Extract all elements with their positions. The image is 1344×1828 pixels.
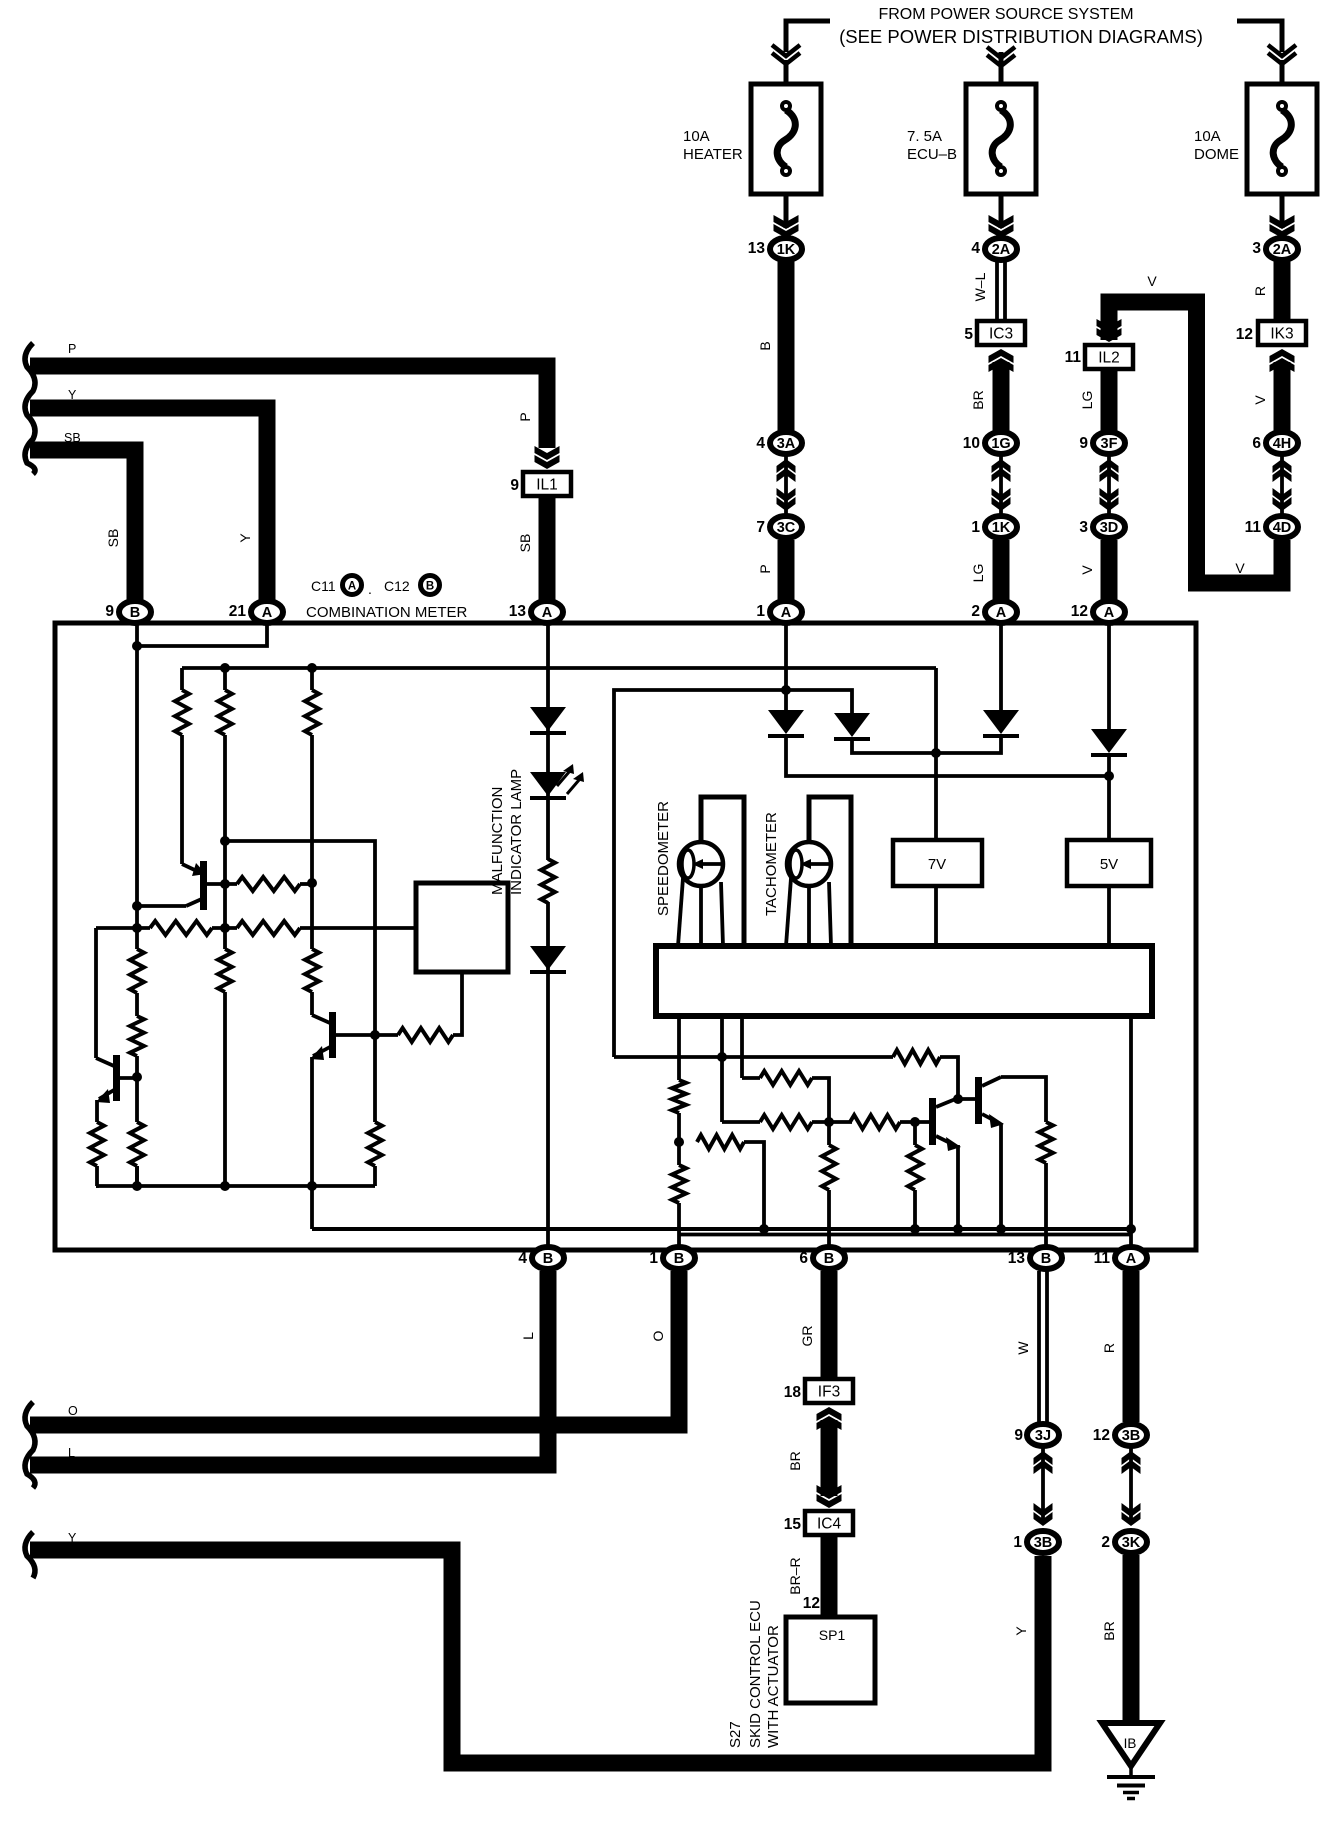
svg-text:P: P xyxy=(68,342,76,356)
svg-text:B: B xyxy=(757,341,773,350)
junction rail T4 emitter xyxy=(953,1224,963,1234)
resistor R2 xyxy=(218,690,232,735)
wire Y from harness to 21A xyxy=(30,408,267,600)
svg-text:15: 15 xyxy=(784,1516,802,1533)
wire D6 to 5V xyxy=(1107,754,1111,840)
resistor R3 xyxy=(305,690,319,735)
connector 13 1K xyxy=(770,238,802,260)
wire 13A down MIL chain xyxy=(546,624,550,860)
wire O from 1B to harness xyxy=(30,1271,679,1425)
junction ground row 9B column xyxy=(132,1181,142,1191)
svg-text:IK3: IK3 xyxy=(1270,326,1293,343)
wire bus to 1B resistor chain xyxy=(677,1016,681,1080)
svg-text:10A: 10A xyxy=(1194,128,1221,145)
svg-text:BR–R: BR–R xyxy=(787,1557,803,1594)
resistor R18 xyxy=(760,1115,812,1129)
wire P from harness to IL1 xyxy=(30,366,547,448)
row with R6 R7 to M1 box xyxy=(96,926,150,930)
svg-text:IL2: IL2 xyxy=(1098,350,1120,367)
junction R13 R14 xyxy=(674,1137,684,1147)
junction base divider xyxy=(910,1117,920,1127)
svg-text:4: 4 xyxy=(518,1250,527,1267)
resistor R4 mid column xyxy=(305,949,319,992)
link 3A to 3C xyxy=(784,456,788,514)
junction T1 collector to 9B column xyxy=(132,901,142,911)
junction R5 to R3 column xyxy=(307,878,317,888)
svg-text:SB: SB xyxy=(105,529,121,548)
svg-text:1K: 1K xyxy=(777,242,796,258)
resistor R7 xyxy=(237,921,300,935)
svg-text:11: 11 xyxy=(1065,349,1082,366)
junction rail R20 xyxy=(910,1224,920,1234)
connector 9 3J xyxy=(1027,1424,1059,1446)
wire R17 corner down xyxy=(742,1076,760,1080)
svg-text:12: 12 xyxy=(1071,603,1088,620)
speedometer wires to bus xyxy=(701,797,744,946)
svg-text:A: A xyxy=(781,605,792,621)
M1 box xyxy=(416,883,508,972)
svg-text:BR: BR xyxy=(970,390,986,409)
svg-text:3K: 3K xyxy=(1122,1535,1141,1551)
svg-text:9: 9 xyxy=(510,477,519,494)
svg-text:6: 6 xyxy=(799,1250,808,1267)
svg-text:SP1: SP1 xyxy=(819,1627,846,1643)
connector 7 3C xyxy=(770,516,802,538)
svg-text:9: 9 xyxy=(1014,1427,1023,1444)
wire bus to 11A xyxy=(1129,1016,1133,1252)
svg-text:B: B xyxy=(1041,1251,1051,1267)
wire W-L 2A to IC3 double line xyxy=(995,262,999,321)
transistor T3 NPN lower mid xyxy=(312,1015,330,1023)
ground row left circuit xyxy=(96,1184,375,1188)
svg-text:MALFUNCTION: MALFUNCTION xyxy=(489,787,506,895)
svg-text:13: 13 xyxy=(748,240,766,257)
wire 12A down to diode D6 xyxy=(1107,624,1111,729)
svg-text:B: B xyxy=(130,605,140,621)
svg-text:B: B xyxy=(674,1251,684,1267)
wire R4 to T3 collector xyxy=(310,992,314,1015)
diode D1 xyxy=(530,707,566,731)
wire R14 to 1B xyxy=(677,1203,681,1252)
arrow out of IK3 upward xyxy=(1270,349,1295,363)
svg-text:4: 4 xyxy=(756,435,765,452)
svg-text:A: A xyxy=(262,605,273,621)
svg-text:L: L xyxy=(520,1332,536,1340)
connector 9 3F xyxy=(1093,432,1125,454)
connector 10 1G xyxy=(985,432,1017,454)
svg-text:4D: 4D xyxy=(1273,520,1292,536)
link 3J to 3B arrows xyxy=(1041,1448,1045,1524)
fuse 10A DOME xyxy=(1247,84,1317,194)
svg-text:4H: 4H xyxy=(1273,436,1292,452)
wire fuse to connector 2A xyxy=(999,194,1004,228)
wire from power source to heater fuse xyxy=(786,21,830,52)
svg-text:3F: 3F xyxy=(1101,436,1118,452)
svg-text:B: B xyxy=(543,1251,553,1267)
svg-text:BR: BR xyxy=(1101,1621,1117,1640)
wire R from 11A to 3B xyxy=(1123,1271,1140,1422)
resistor R16 xyxy=(893,1050,940,1064)
T5 collector to 13B output xyxy=(1001,1077,1046,1122)
ground IB xyxy=(1102,1723,1160,1766)
svg-text:11: 11 xyxy=(1245,519,1262,536)
svg-text:A: A xyxy=(1104,605,1115,621)
svg-text:1: 1 xyxy=(649,1250,658,1267)
svg-text:A: A xyxy=(1126,1251,1137,1267)
resistor R6 xyxy=(150,921,212,935)
svg-text:W: W xyxy=(1015,1341,1031,1355)
wire fuse to connector 2A dome xyxy=(1280,194,1285,228)
wire 7V to bus xyxy=(934,886,938,946)
svg-text:IF3: IF3 xyxy=(818,1384,840,1401)
skid control ECU SP1 xyxy=(786,1617,875,1703)
svg-text:1: 1 xyxy=(756,603,765,620)
svg-text:P: P xyxy=(757,564,773,573)
svg-text:1G: 1G xyxy=(991,436,1010,452)
wire bus stub to gauge feed line xyxy=(720,1016,724,1057)
svg-text:12: 12 xyxy=(1236,326,1253,343)
connector 4 2A xyxy=(985,238,1017,260)
wire ground row to main rail xyxy=(310,1186,314,1229)
fuse 7.5A ECU-B xyxy=(966,84,1036,194)
junction T4 collector T5 base xyxy=(953,1094,963,1104)
resistor R9 xyxy=(90,1122,104,1166)
wire BR IF3 to IC4 xyxy=(821,1420,838,1496)
svg-text:V: V xyxy=(1235,560,1245,576)
combination meter box xyxy=(55,623,1196,1250)
junction rail R3 xyxy=(307,663,317,673)
svg-text:18: 18 xyxy=(784,1384,802,1401)
svg-text:IB: IB xyxy=(1124,1736,1137,1751)
svg-text:A: A xyxy=(996,605,1007,621)
wire D4 to 7V node xyxy=(852,735,1001,753)
arrow into IC4 xyxy=(817,1494,842,1508)
resistor R17 xyxy=(760,1071,812,1085)
svg-text:3D: 3D xyxy=(1100,520,1119,536)
diode D5 on 2A xyxy=(983,710,1019,734)
junction T3 base M1 column xyxy=(370,1030,380,1040)
tachometer gauge xyxy=(787,842,831,886)
junction row left column xyxy=(132,923,142,933)
svg-text:Y: Y xyxy=(68,1531,77,1545)
transistor T5 NPN output xyxy=(975,1077,982,1124)
svg-text:S27: S27 xyxy=(727,1721,744,1748)
T2 base wire xyxy=(120,1076,137,1080)
svg-text:INDICATOR LAMP: INDICATOR LAMP xyxy=(508,769,525,895)
svg-text:LG: LG xyxy=(970,564,986,583)
svg-text:4: 4 xyxy=(971,240,980,257)
svg-text:13: 13 xyxy=(1008,1250,1026,1267)
svg-text:3C: 3C xyxy=(777,520,796,536)
svg-text:(SEE POWER DISTRIBUTION DIAGRA: (SEE POWER DISTRIBUTION DIAGRAMS) xyxy=(839,26,1203,47)
break symbol for Y wire xyxy=(25,1532,35,1578)
wire 5V to bus xyxy=(1107,886,1111,946)
connector 6 4H xyxy=(1266,432,1298,454)
svg-text:SB: SB xyxy=(64,431,81,445)
wire D3 to 5V rail xyxy=(786,735,1109,776)
arrow into ECU-B fuse xyxy=(987,47,1015,66)
svg-text:1: 1 xyxy=(971,519,980,536)
svg-text:V: V xyxy=(1147,273,1157,289)
diode D2 xyxy=(530,946,566,970)
svg-text:DOME: DOME xyxy=(1194,146,1239,163)
link 3F to 3D xyxy=(1107,456,1111,514)
wire R 2A to IK3 xyxy=(1274,261,1291,321)
regulator 5V xyxy=(1067,840,1151,886)
svg-text:7. 5A: 7. 5A xyxy=(907,128,942,145)
wire W from 13B to 3J double line xyxy=(1037,1271,1041,1422)
wire from 21A to left column xyxy=(137,624,267,646)
wire Y from harness to 3B xyxy=(30,1550,1043,1763)
resistor R13 xyxy=(672,1080,686,1113)
svg-text:1K: 1K xyxy=(992,520,1011,536)
svg-text:3: 3 xyxy=(1079,519,1088,536)
svg-text:FROM POWER SOURCE SYSTEM: FROM POWER SOURCE SYSTEM xyxy=(878,6,1133,23)
svg-text:3: 3 xyxy=(1252,240,1261,257)
junction rail R15 xyxy=(759,1224,769,1234)
wire 2A down to diode D5 xyxy=(999,624,1003,710)
junction row R2 column xyxy=(220,923,230,933)
wire B 1K to 3A xyxy=(778,261,795,431)
svg-text:SB: SB xyxy=(517,534,533,553)
top rail of left circuit xyxy=(182,666,936,670)
arrow out of IC3 upward xyxy=(989,349,1014,363)
svg-text:B: B xyxy=(426,581,434,593)
junction T2 base xyxy=(132,1072,142,1082)
svg-text:1: 1 xyxy=(1013,1534,1022,1551)
resistor R14 xyxy=(672,1165,686,1203)
svg-text:COMBINATION METER: COMBINATION METER xyxy=(306,604,468,621)
wire 1B to 11A column xyxy=(679,1233,1131,1237)
svg-text:A: A xyxy=(542,605,553,621)
svg-text:5: 5 xyxy=(964,326,973,343)
junction 9B-21A xyxy=(132,641,142,651)
T5 base wire xyxy=(958,1097,976,1101)
svg-text:V: V xyxy=(1079,565,1095,575)
wire rail to 7V xyxy=(934,668,938,840)
svg-text:9: 9 xyxy=(1079,435,1088,452)
wire BR IC3 to 1G xyxy=(993,362,1010,431)
svg-text:13: 13 xyxy=(509,603,527,620)
resistor R12 xyxy=(368,1122,382,1166)
svg-text:L: L xyxy=(68,1446,75,1460)
junction IL1 xyxy=(523,472,571,496)
resistor R22 output xyxy=(1039,1122,1053,1163)
svg-text:12: 12 xyxy=(803,1595,820,1612)
wire P 3C to meter pin 1A xyxy=(778,540,795,600)
wire LG IL2 to 3F xyxy=(1101,369,1118,431)
junction rail R2 xyxy=(220,663,230,673)
wire from 9B down left column xyxy=(135,624,139,949)
svg-text:.: . xyxy=(368,581,372,597)
diode D6 on 12A xyxy=(1091,729,1127,753)
junction gauge feed xyxy=(717,1052,727,1062)
speedometer gauge xyxy=(679,842,723,886)
svg-text:WITH ACTUATOR: WITH ACTUATOR xyxy=(765,1625,782,1748)
wire R11 to M1 box bottom xyxy=(453,972,462,1035)
T1 base wire xyxy=(207,882,237,886)
svg-text:TACHOMETER: TACHOMETER xyxy=(763,812,780,916)
resistor R2 column wire xyxy=(223,668,227,690)
junction 1A branch xyxy=(781,685,791,695)
svg-text:11: 11 xyxy=(1094,1250,1111,1267)
wire 1A down to diode row xyxy=(784,624,788,710)
tachometer wires to bus xyxy=(809,797,851,946)
svg-text:IL1: IL1 xyxy=(536,477,558,494)
resistor R15 branch to rail xyxy=(697,1135,744,1149)
wire R9 to ground row xyxy=(96,1166,97,1186)
junction 5V node xyxy=(1104,771,1114,781)
connector 4 3A xyxy=(770,432,802,454)
fuse 10A HEATER xyxy=(751,84,821,194)
wire 1A branch right to diode D4 xyxy=(786,690,852,713)
wire V loop from IL2 to 4D xyxy=(1109,302,1282,583)
svg-text:2A: 2A xyxy=(1273,242,1292,258)
wire node to M1 column xyxy=(225,841,375,1035)
wire from power source to dome fuse xyxy=(1237,21,1282,52)
wire V IK3 to 4H xyxy=(1274,362,1291,431)
wire BR 3K to ground xyxy=(1123,1555,1140,1722)
wire fuse to connector 1K xyxy=(784,194,789,228)
resistor R20 to rail xyxy=(908,1145,922,1190)
wire R22 to 13B xyxy=(1044,1163,1048,1252)
arrow into dome fuse xyxy=(1268,45,1296,64)
svg-text:7V: 7V xyxy=(928,856,946,873)
svg-text:C11: C11 xyxy=(311,578,336,594)
svg-text:2A: 2A xyxy=(992,242,1011,258)
svg-text:3A: 3A xyxy=(777,436,796,452)
wire 1A branch left to gauge loop xyxy=(614,690,786,1057)
wire SB IL1 to meter pin 13A xyxy=(539,496,556,600)
svg-text:BR: BR xyxy=(787,1451,803,1470)
svg-text:SPEEDOMETER: SPEEDOMETER xyxy=(655,801,672,916)
svg-text:Y: Y xyxy=(68,388,77,402)
connector 12 3B xyxy=(1115,1424,1147,1446)
junction rail 11A xyxy=(1126,1224,1136,1234)
svg-text:12: 12 xyxy=(1093,1427,1110,1444)
junction R2 base xyxy=(220,879,230,889)
T4 base row xyxy=(720,1057,724,1122)
junction ground row R2 column xyxy=(220,1181,230,1191)
svg-text:Y: Y xyxy=(1013,1626,1029,1636)
diode D3 on 1A xyxy=(768,710,804,734)
svg-text:V: V xyxy=(1252,395,1268,405)
connector 11 4D xyxy=(1266,516,1298,538)
resistor MIL xyxy=(541,859,555,903)
wire R16 to T4 collector xyxy=(940,1057,958,1098)
svg-text:9: 9 xyxy=(105,603,114,620)
resistor R19 xyxy=(850,1115,900,1129)
gauge feed line xyxy=(614,1055,893,1059)
svg-text:3J: 3J xyxy=(1035,1428,1051,1444)
svg-text:HEATER: HEATER xyxy=(683,146,743,163)
arrow into IL2 xyxy=(1097,328,1122,342)
break symbol for O L wires xyxy=(25,1402,35,1488)
svg-text:P: P xyxy=(517,412,533,421)
svg-text:6: 6 xyxy=(1252,435,1261,452)
svg-text:IC4: IC4 xyxy=(817,1516,842,1533)
svg-text:GR: GR xyxy=(799,1326,815,1347)
svg-text:5V: 5V xyxy=(1100,856,1118,873)
connector 1 1K lower xyxy=(985,516,1017,538)
svg-text:10A: 10A xyxy=(683,128,710,145)
svg-text:7: 7 xyxy=(756,519,765,536)
svg-text:B: B xyxy=(824,1251,834,1267)
svg-text:3B: 3B xyxy=(1034,1535,1053,1551)
svg-text:21: 21 xyxy=(229,603,247,620)
svg-text:IC3: IC3 xyxy=(989,326,1013,343)
wire L from 4B to harness xyxy=(30,1271,548,1465)
bus bar block xyxy=(656,946,1152,1016)
svg-text:A: A xyxy=(348,581,356,593)
resistor R10 xyxy=(130,1122,144,1166)
junction IC3 xyxy=(977,321,1025,345)
svg-text:2: 2 xyxy=(971,603,980,620)
junction rail T5 emitter xyxy=(996,1224,1006,1234)
wire SB from harness to 9B xyxy=(30,450,135,600)
wire BR-R IC4 to SP1 xyxy=(821,1535,838,1619)
arrow into 2A xyxy=(989,224,1014,238)
resistor R8a xyxy=(130,949,144,993)
diode D4 xyxy=(834,713,870,737)
arrow into 1K xyxy=(774,224,799,238)
svg-text:ECU–B: ECU–B xyxy=(907,146,957,163)
junction IK3 xyxy=(1258,321,1306,345)
arrow into IL1 xyxy=(535,455,560,469)
connector 2 3K xyxy=(1115,1531,1147,1553)
svg-text:R: R xyxy=(1252,286,1268,296)
svg-text:Y: Y xyxy=(237,533,253,543)
link 1G to 1K xyxy=(999,456,1003,514)
M1 column lower xyxy=(373,1035,377,1122)
connector 1 3B xyxy=(1027,1531,1059,1553)
wire left branch down xyxy=(94,928,98,1058)
transistor T4 NPN driver xyxy=(929,1098,936,1145)
wire from power source to ECU-B fuse xyxy=(999,52,1004,86)
junction IC4 xyxy=(805,1511,853,1535)
resistor R8b xyxy=(130,1016,144,1056)
svg-text:SKID CONTROL ECU: SKID CONTROL ECU xyxy=(747,1600,764,1748)
connector 3 3D xyxy=(1093,516,1125,538)
wire GR from 6B to IF3 xyxy=(821,1271,838,1379)
link 4H to 4D xyxy=(1280,456,1284,514)
svg-text:LG: LG xyxy=(1079,391,1095,410)
arrow into 2A dome xyxy=(1270,224,1295,238)
malfunction indicator lamp LED xyxy=(530,772,566,796)
svg-text:10: 10 xyxy=(963,435,980,452)
wire bus stub to R17 row xyxy=(740,1016,744,1078)
junction IL2 xyxy=(1085,345,1133,369)
junction ground row T3 emitter xyxy=(307,1181,317,1191)
resistor R11 to M1 xyxy=(375,1033,398,1037)
link 3B to 3K arrows xyxy=(1129,1448,1133,1524)
junction feedback node xyxy=(220,836,230,846)
ground rail inside meter xyxy=(312,1227,1131,1231)
T3 base wire xyxy=(336,1033,375,1037)
svg-text:2: 2 xyxy=(1101,1534,1110,1551)
arrow into heater fuse xyxy=(772,45,800,64)
connector 3 2A xyxy=(1266,238,1298,260)
transistor T1 PNP upper left xyxy=(182,864,201,873)
resistor R2 lower xyxy=(223,928,227,949)
wire LG 1K to meter pin 2A xyxy=(993,540,1010,600)
svg-text:O: O xyxy=(650,1330,666,1341)
wire V 3D to meter pin 12A xyxy=(1101,540,1118,600)
svg-text:3B: 3B xyxy=(1122,1428,1141,1444)
junction 7V supply xyxy=(931,748,941,758)
arrow out of IF3 upward xyxy=(817,1407,842,1421)
resistor R21 to 6B output xyxy=(827,1122,831,1145)
